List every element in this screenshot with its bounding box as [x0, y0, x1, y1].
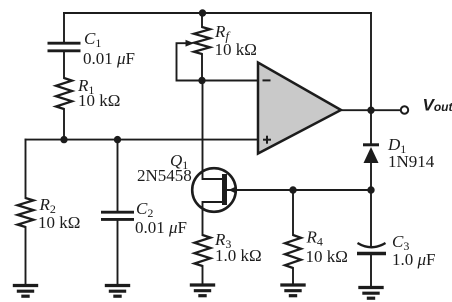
- svg-text:Vout: Vout: [423, 96, 452, 115]
- capacitor C1: [48, 43, 81, 51]
- capacitor C3: [357, 243, 386, 254]
- wire R3 to ground: [202, 266, 204, 284]
- wire Rf bottom to node: [201, 54, 203, 81]
- wire node to Q1 drain: [203, 81, 223, 180]
- resistor R4: [285, 235, 301, 268]
- ground (C3): [358, 288, 383, 299]
- resistor R1: [56, 78, 72, 109]
- svg-text:1.0 kΩ: 1.0 kΩ: [215, 246, 262, 265]
- capacitor C2: [101, 212, 134, 219]
- wire C3 to ground: [370, 255, 372, 287]
- wire R4 to ground: [292, 268, 294, 284]
- potentiometer Rf: [186, 27, 211, 54]
- node junction dots: [60, 9, 374, 193]
- ground (R3): [190, 285, 215, 296]
- wire D1 to gate rail: [370, 163, 372, 190]
- svg-text:C1: C1: [84, 29, 101, 50]
- svg-text:10 kΩ: 10 kΩ: [215, 40, 257, 59]
- wire R1 to node: [63, 109, 65, 140]
- wire C2 drop: [117, 140, 119, 211]
- wire C1 top drop: [63, 13, 65, 42]
- svg-text:C2: C2: [136, 199, 153, 220]
- transistor Q1: [192, 168, 236, 212]
- svg-text:0.01 μF: 0.01 μF: [83, 49, 135, 68]
- wire R4 drop: [292, 190, 294, 235]
- svg-text:1.0 μF: 1.0 μF: [392, 250, 436, 269]
- svg-text:10 kΩ: 10 kΩ: [38, 213, 80, 232]
- svg-text:10 kΩ: 10 kΩ: [78, 91, 120, 110]
- wire top horizontal: [64, 12, 371, 14]
- op-amp U1: [258, 63, 341, 154]
- output terminal: [401, 106, 408, 113]
- ground (R4): [280, 285, 305, 296]
- wire plus-input rail: [26, 139, 259, 141]
- svg-text:10 kΩ: 10 kΩ: [306, 247, 348, 266]
- ground (C2): [105, 286, 130, 297]
- diode D1: [363, 145, 379, 163]
- wire R2 to ground: [25, 227, 27, 285]
- wire Rf top: [201, 13, 203, 27]
- wire output: [341, 109, 401, 111]
- wire gate rail: [227, 189, 371, 191]
- svg-text:0.01 μF: 0.01 μF: [135, 218, 187, 237]
- wire Q1 source to R3: [203, 202, 223, 235]
- resistor R2: [18, 198, 34, 227]
- wire R2 drop: [25, 140, 27, 198]
- wire C2 to ground: [117, 221, 119, 285]
- svg-text:2N5458: 2N5458: [137, 166, 192, 185]
- svg-text:R4: R4: [306, 228, 323, 249]
- wire Rf wiper loop: [177, 43, 203, 80]
- wire minus input: [202, 80, 258, 82]
- wire C1 to R1: [63, 52, 65, 78]
- ground (R2): [13, 286, 38, 297]
- wire D1 top: [370, 110, 372, 144]
- wire C3 drop: [370, 190, 372, 247]
- wire output column top: [370, 13, 372, 110]
- svg-text:1N914: 1N914: [388, 152, 435, 171]
- resistor R3: [195, 235, 211, 266]
